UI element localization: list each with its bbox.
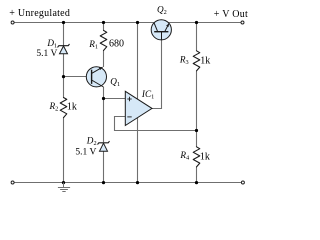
node bottom rail V- (136, 181, 139, 184)
svg-text:Q1: Q1 (110, 77, 120, 89)
svg-text:+ Unregulated: + Unregulated (9, 8, 70, 19)
svg-text:1k: 1k (67, 101, 77, 112)
resistor R3 zigzag (193, 51, 200, 71)
wire Q1 base (64, 76, 87, 78)
node bottom rail D2 (102, 181, 105, 184)
wire op-amp plus input (104, 98, 126, 100)
resistor R2 zigzag (60, 98, 67, 118)
op-amp IC1 (125, 91, 152, 125)
transistor Q1 (86, 67, 106, 87)
wire op-amp supply V+ and V- vertical (137, 23, 139, 183)
wire Q1 collector to node (103, 87, 105, 99)
wire R3 top lead (196, 23, 198, 51)
wire op-amp minus feedback (115, 117, 197, 131)
wire R4 to bottom rail (196, 167, 198, 183)
svg-text:R1: R1 (88, 39, 98, 51)
svg-text:D1: D1 (46, 38, 57, 50)
wire D1 column upper (63, 23, 65, 46)
wire D1 to base junction (63, 54, 65, 98)
wire R2 to bottom rail (63, 118, 65, 183)
wire R1 top lead (103, 23, 105, 31)
zener diode D2 (98, 141, 110, 151)
node bottom rail R4 (195, 181, 198, 184)
resistor R1 zigzag (100, 30, 107, 50)
wire top rail right (169, 22, 241, 24)
transistor Q2 (151, 20, 171, 40)
node Q1 collector / plus input (102, 97, 105, 100)
wire feedback node to R4 (196, 131, 198, 148)
svg-text:1k: 1k (200, 151, 210, 162)
wire D2 to bottom rail (103, 151, 105, 183)
wire bottom rail (14, 182, 241, 184)
node feedback divider (195, 129, 198, 132)
terminal bottom left (11, 181, 14, 184)
svg-text:D2: D2 (86, 136, 97, 148)
svg-text:5.1 V: 5.1 V (36, 49, 57, 59)
node top rail D1 (62, 21, 65, 24)
svg-text:1k: 1k (200, 55, 210, 66)
wire R3 to feedback node (196, 71, 198, 130)
node top rail R3 (195, 21, 198, 24)
svg-text:R4: R4 (179, 150, 190, 162)
wire top rail left (14, 22, 154, 24)
svg-text:IC1: IC1 (141, 89, 154, 101)
ground (58, 183, 70, 192)
wire op-amp output to Q2 base (152, 40, 162, 109)
terminal V out (241, 21, 244, 24)
svg-text:R3: R3 (179, 55, 189, 67)
node bottom rail ground (62, 181, 65, 184)
node top rail R1 (102, 21, 105, 24)
svg-text:680: 680 (109, 39, 124, 50)
terminal bottom right (241, 181, 244, 184)
svg-text:+ V Out: + V Out (214, 9, 248, 20)
node Q1 base (62, 75, 65, 78)
svg-text:R2: R2 (49, 101, 59, 113)
terminal unregulated input (11, 21, 14, 24)
zener diode D1 (58, 44, 70, 54)
svg-text:Q2: Q2 (157, 5, 167, 17)
node top rail V+ (136, 21, 139, 24)
resistor R4 zigzag (193, 147, 200, 167)
wire node to D2 (103, 99, 105, 143)
wire R1 to Q1 emitter (103, 51, 105, 68)
svg-text:5.1 V: 5.1 V (75, 147, 96, 157)
